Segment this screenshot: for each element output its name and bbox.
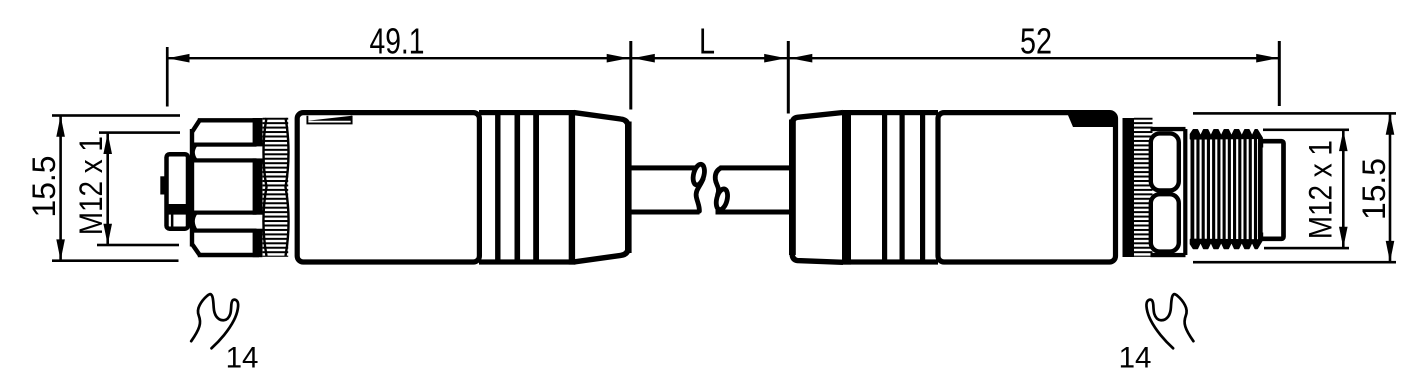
extension tick between L and 52: [787, 41, 790, 114]
entry end edge: [789, 120, 796, 256]
connector tip: [1260, 141, 1283, 239]
dimension line 49.1 / L / 52: [168, 57, 1279, 59]
entry taper: [792, 113, 843, 263]
groove ring 1 right: [882, 112, 887, 264]
cable break loop left: [691, 163, 706, 186]
15.5 arrow up: [56, 116, 65, 137]
15.5 top extension line: [52, 114, 180, 117]
M12 top extension line: [99, 131, 180, 134]
15.5 dimension line right: [1389, 113, 1392, 262]
bottom edge over grooves right: [843, 259, 938, 264]
knurl crown curve left: [264, 118, 267, 256]
svg-text:14: 14: [1119, 342, 1152, 375]
hex facet line 2a: [194, 211, 257, 215]
hex top edge right: [1151, 127, 1186, 131]
M12 dimension line right: [1342, 130, 1345, 248]
cable left bottom line: [629, 210, 700, 215]
hex right shadow band segment mid: [253, 158, 263, 214]
cable right top line: [720, 165, 790, 170]
wrench symbol right: [1146, 294, 1193, 348]
knurl left band right connector: [1123, 118, 1135, 257]
groove ring 3 right: [920, 112, 925, 264]
M12 arrow down right: [1339, 227, 1348, 248]
15.5 arrow up right: [1386, 114, 1395, 135]
socket face slot bar: [167, 204, 190, 215]
M12 bottom extension line right: [1264, 247, 1349, 250]
hex facet line 2b: [194, 229, 257, 233]
socket face body: [167, 154, 189, 229]
strain relief end edge: [625, 122, 632, 254]
strain relief taper: [574, 113, 628, 262]
knurled ring hatch right: [1134, 118, 1153, 257]
arrow L left: [633, 54, 655, 63]
main body shell: [297, 113, 479, 262]
hex right edge line: [1183, 129, 1187, 255]
extension tick between 49.1 and L: [629, 41, 632, 110]
bottom edge over grooves: [479, 259, 576, 264]
socket face keyway tab: [160, 176, 165, 194]
clamp ring bar: [569, 110, 575, 264]
cable left top line: [629, 165, 697, 170]
hex right shadow band segment top: [253, 118, 263, 146]
svg-text:14: 14: [226, 342, 259, 375]
arrow 52 right: [1256, 54, 1278, 63]
thread flank slits: [1194, 139, 1259, 240]
arrow 49.1 right: [607, 54, 629, 63]
M12 arrow down: [103, 224, 112, 245]
cable break tail right: [715, 168, 720, 195]
coupling nut hex outline: [192, 120, 259, 255]
svg-text:M12 x 1: M12 x 1: [1303, 140, 1339, 239]
15.5 arrow down right: [1386, 241, 1395, 262]
hex bottom edge right: [1151, 253, 1186, 257]
15.5 dimension line: [59, 116, 62, 261]
svg-text:52: 52: [1020, 21, 1052, 62]
svg-text:15.5: 15.5: [1356, 158, 1392, 220]
body black marking: [1066, 111, 1113, 128]
svg-text:15.5: 15.5: [26, 156, 62, 218]
main body shell right: [938, 113, 1116, 262]
M12 arrow up right: [1339, 130, 1348, 151]
top edge over grooves: [479, 110, 576, 115]
hex facet arc 2: [193, 213, 196, 231]
15.5 top extension line right: [1193, 112, 1396, 115]
wrench symbol left: [191, 294, 238, 348]
top edge over grooves right: [843, 110, 938, 115]
hex facet pillow lower: [1151, 194, 1179, 251]
hex facet line 1a: [194, 143, 257, 147]
hex right shadow band segment bottom: [253, 229, 263, 258]
15.5 arrow down: [56, 239, 65, 260]
15.5 bottom extension line: [52, 259, 179, 262]
clamp ring bar right: [842, 110, 851, 264]
body marking flag outline: [307, 116, 351, 124]
cable break tail left: [696, 179, 703, 212]
tip chamfer bottom-left: [1258, 233, 1263, 242]
M12 arrow up: [103, 133, 112, 154]
socket face inner step line: [171, 215, 174, 230]
15.5 bottom extension line right: [1193, 261, 1396, 264]
cable right bottom line: [716, 210, 790, 215]
extension tick left of 49.1: [166, 47, 169, 107]
knurled ring hatch: [263, 118, 289, 257]
thread crest zigzag top: [1191, 130, 1263, 139]
arrow L right: [764, 54, 786, 63]
arrow 49.1 left: [168, 54, 190, 63]
thread crest zigzag bottom: [1191, 239, 1263, 248]
knurl crown curve right: [286, 118, 289, 256]
hex facet pillow upper: [1151, 133, 1179, 190]
groove ring 2 right: [900, 112, 905, 264]
thread body: [1191, 135, 1262, 243]
cable break loop right: [714, 188, 729, 211]
hex facet line 1b: [194, 158, 257, 162]
svg-text:L: L: [699, 21, 715, 62]
svg-text:M12 x 1: M12 x 1: [73, 136, 109, 235]
groove ring 2: [515, 112, 521, 264]
groove ring 1: [495, 112, 500, 264]
body marking flag wedge: [308, 116, 353, 121]
extension tick right of 52: [1278, 41, 1281, 106]
M12 dimension line: [106, 133, 109, 245]
M12 top extension line right: [1263, 129, 1349, 132]
M12 bottom extension line: [97, 244, 179, 247]
groove ring 3: [533, 112, 539, 264]
arrow 52 left: [790, 54, 812, 63]
svg-text:49.1: 49.1: [370, 21, 425, 62]
hex facet arc 1: [193, 145, 196, 161]
tip chamfer top-left: [1258, 139, 1263, 148]
